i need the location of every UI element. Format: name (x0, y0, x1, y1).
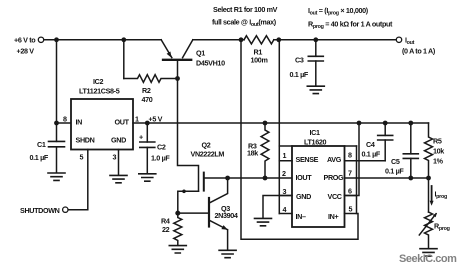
transistor Q3 emitter wire (227, 230, 229, 250)
transistor Q1 emitter arrowhead (167, 52, 172, 58)
svg-text:SHDN: SHDN (76, 136, 95, 145)
node junction C4 (383, 121, 388, 126)
IC1 left pin cells edge (278, 40, 280, 214)
svg-text:8: 8 (63, 115, 67, 124)
wire IC1 pin 8 AVG to C4 (357, 160, 386, 162)
svg-text:SeekIC.com: SeekIC.com (399, 253, 457, 265)
wire Iprog from PROG node down (428, 178, 430, 212)
transistor Q2 VN2222LM drain wire (178, 79, 199, 192)
wire vertical to IC2 IN (56, 40, 58, 123)
svg-text:Rprog: Rprog (434, 222, 450, 233)
svg-text:10k: 10k (433, 147, 444, 156)
ground for C1 (48, 173, 65, 180)
IC1 right pin cells edge (356, 146, 358, 214)
wire top rail segment 3 (274, 39, 396, 41)
IC1 pin 2 divider is the IOUT wire (drawn) (279, 213, 292, 215)
potentiometer Rprog (425, 212, 433, 248)
svg-text:IN–: IN– (296, 212, 306, 221)
svg-text:6: 6 (348, 187, 352, 196)
IC1 left pin cell dividers (279, 146, 292, 196)
wire IC1 pin 3 GND (263, 196, 292, 219)
svg-text:0.1 µF: 0.1 µF (290, 70, 309, 79)
resistor R3 18k (261, 123, 269, 178)
capacitor C2 top lead (146, 123, 148, 142)
transistor Q3 base bar (208, 198, 210, 227)
svg-text:Q2: Q2 (202, 141, 211, 150)
svg-text:IOUT: IOUT (296, 173, 313, 182)
svg-text:5: 5 (349, 205, 353, 214)
svg-text:+6 V to: +6 V to (14, 36, 36, 45)
svg-text:AVG: AVG (327, 155, 342, 164)
wire IC1 pin 5 IN+ loop to left of R1 (241, 40, 358, 240)
svg-text:IC1: IC1 (310, 128, 320, 137)
svg-text:C2: C2 (157, 143, 166, 152)
svg-text:Q1: Q1 (196, 49, 205, 58)
node junction Q2 source / R4 / Q3 base (175, 211, 180, 216)
svg-text:0.1 µF: 0.1 µF (362, 150, 381, 159)
transistor Q3 2N3904 collector (210, 178, 228, 203)
svg-text:SENSE: SENSE (296, 155, 319, 164)
svg-text:full scale @ Iout(max): full scale @ Iout(max) (212, 18, 277, 29)
svg-text:OUT: OUT (115, 118, 130, 127)
ground for C3 (307, 86, 324, 93)
transistor Q1 D45VH10 emitter diagonal (161, 40, 172, 58)
svg-text:1.0 µF: 1.0 µF (151, 154, 170, 163)
svg-text:LT1620: LT1620 (304, 138, 326, 147)
capacitor C5 plates (403, 153, 418, 155)
node junction left of R1 (239, 37, 244, 42)
capacitor C3 bottom lead (315, 61, 317, 86)
node junction C5 (408, 121, 413, 126)
svg-text:D45VH10: D45VH10 (196, 59, 225, 68)
node junction C3 (313, 37, 318, 42)
node junction R5 / PROG / Rprog (426, 176, 431, 181)
node junction R3 bottom (263, 176, 268, 181)
capacitor C3 top lead (315, 40, 317, 57)
resistor R2 470 (124, 75, 178, 83)
svg-text:GND: GND (111, 136, 126, 145)
potentiometer Rprog arrow diagonal (419, 214, 436, 235)
svg-text:C4: C4 (366, 140, 375, 149)
capacitor C5 top lead (410, 123, 412, 154)
svg-text:2: 2 (282, 169, 286, 178)
IC1 LT1620 box (292, 146, 345, 227)
node junction C5 bottom (408, 176, 413, 181)
capacitor C1 plates (49, 140, 65, 142)
wire IC1 pin 7 PROG row (357, 177, 429, 179)
transistor Q1 base bar (163, 59, 191, 61)
svg-text:+5 V: +5 V (149, 115, 163, 124)
resistor R4 22 (174, 213, 182, 245)
svg-text:C1: C1 (37, 140, 46, 149)
svg-text:R5: R5 (433, 137, 442, 146)
svg-text:C3: C3 (295, 56, 304, 65)
svg-text:IC2: IC2 (93, 77, 103, 86)
svg-text:+: + (139, 133, 143, 142)
node junction C2 (145, 121, 150, 126)
svg-text:100m: 100m (251, 56, 268, 65)
svg-text:470: 470 (142, 95, 153, 104)
node small dot on Q2 source (182, 190, 186, 194)
capacitor C1 bottom lead (56, 147, 58, 173)
input terminal +6V to +28V (38, 37, 43, 42)
node junction Q3 collector (225, 176, 230, 181)
transistor Q3 base wire (178, 212, 208, 214)
ground for Rprog (420, 249, 437, 256)
svg-text:R2: R2 (142, 86, 151, 95)
transistor Q2 source wire (178, 191, 199, 213)
svg-text:5: 5 (80, 153, 84, 162)
svg-text:Iout = (Iprog × 10,000): Iout = (Iprog × 10,000) (308, 6, 369, 17)
svg-text:2N3904: 2N3904 (215, 211, 238, 220)
transistor Q1 collector diagonal (183, 40, 193, 58)
capacitor C5 bottom lead (410, 158, 412, 178)
svg-text:0.1 µF: 0.1 µF (30, 153, 49, 162)
svg-text:C5: C5 (391, 157, 400, 166)
svg-text:Iout: Iout (405, 36, 415, 47)
ground for R4 (169, 246, 186, 253)
svg-text:22: 22 (162, 225, 170, 234)
svg-text:18k: 18k (247, 149, 258, 158)
capacitor C4 bottom lead (384, 140, 386, 161)
ground for Q3 emitter (219, 250, 236, 257)
svg-text:Rprog = 40 kΩ for 1 A output: Rprog = 40 kΩ for 1 A output (308, 20, 393, 31)
wire IC2 IN pin 8 (57, 122, 72, 124)
node junction R3 (263, 121, 268, 126)
wire top rail segment 1 (44, 39, 161, 41)
transistor Q1 base lead (177, 60, 179, 79)
wire IC2 SHDN pin 5 (69, 150, 88, 210)
wire Q2 gate to IC1 IOUT pin 2 (204, 177, 292, 179)
capacitor C2 bottom lead (146, 147, 148, 173)
svg-text:IN: IN (76, 118, 83, 127)
node junction at R2 drop (121, 37, 126, 42)
node junction IC2 IN / C1 (54, 121, 59, 126)
resistor R1 100m (244, 36, 274, 44)
svg-text:0.1 µF: 0.1 µF (385, 167, 404, 176)
capacitor C2 plates (140, 141, 155, 143)
resistor R5 10k 1% (425, 123, 433, 178)
svg-text:1: 1 (283, 151, 287, 160)
svg-text:GND: GND (296, 192, 311, 201)
svg-text:SHUTDOWN: SHUTDOWN (20, 206, 60, 215)
svg-text:8: 8 (348, 151, 352, 160)
node junction at IC2 IN drop (54, 37, 59, 42)
svg-text:Iprog: Iprog (435, 190, 447, 201)
SHUTDOWN terminal (63, 207, 68, 212)
capacitor C4 top lead (384, 123, 386, 135)
transistor Q3 emitter diagonal (210, 221, 227, 230)
wire VCC pin 6 riser (345, 123, 360, 196)
capacitor C1 top lead (56, 123, 58, 141)
svg-text:VCC: VCC (328, 192, 342, 201)
ground for IC2 GND (110, 175, 127, 182)
svg-text:PROG: PROG (324, 173, 345, 182)
svg-text:1: 1 (135, 115, 139, 124)
svg-text:1%: 1% (433, 157, 444, 166)
wire top rail segment 2 (193, 39, 244, 41)
capacitor C4 plates (378, 134, 393, 136)
svg-text:(0 A to 1 A): (0 A to 1 A) (402, 47, 436, 56)
svg-text:4: 4 (283, 205, 287, 214)
node junction right of R1 (276, 37, 281, 42)
wire IC2 GND pin 3 (118, 150, 120, 176)
svg-text:VN2222LM: VN2222LM (191, 150, 225, 159)
ground for IC1 GND (255, 218, 272, 225)
node junction Q1 base / Q2 drain (175, 76, 180, 81)
wire vertical to R2 (123, 40, 125, 79)
capacitor C3 plates (308, 55, 323, 57)
node junction VCC riser (357, 121, 362, 126)
svg-text:+28 V: +28 V (17, 47, 35, 56)
svg-text:LT1121CS8-5: LT1121CS8-5 (79, 87, 120, 96)
IC1 right pin cell dividers (345, 146, 357, 196)
svg-text:IN+: IN+ (328, 212, 338, 221)
transistor Q3 emitter arrowhead (221, 225, 227, 230)
svg-text:7: 7 (348, 169, 352, 178)
transistor Q2 gate bar (203, 173, 205, 191)
svg-text:Select R1 for 100 mV: Select R1 for 100 mV (213, 5, 278, 14)
IC2 LT1121CS8-5 box (71, 99, 133, 150)
svg-text:3: 3 (113, 153, 117, 162)
wire IC2 OUT +5V rail (133, 122, 429, 124)
Iprog arrow (431, 186, 433, 203)
svg-text:3: 3 (283, 187, 287, 196)
ground for C2 (139, 174, 156, 181)
output terminal Iout (396, 37, 401, 42)
